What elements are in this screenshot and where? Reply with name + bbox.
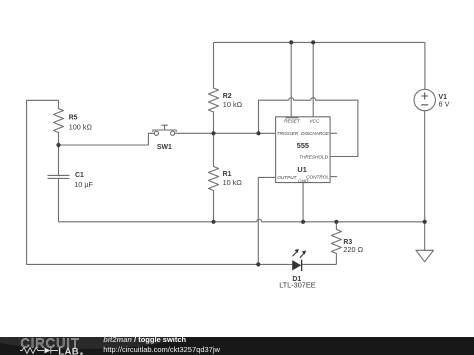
pin stub discharge: [330, 132, 337, 134]
wire V1 bottom: [424, 111, 426, 222]
wire output to LED: [258, 177, 275, 264]
node output-LED: [256, 262, 260, 266]
wire reset feed: [290, 42, 292, 116]
capacitor C1: [48, 145, 70, 222]
ground: [416, 250, 434, 261]
label C1: [74, 172, 93, 189]
svg-text:THRESHOLD: THRESHOLD: [299, 154, 329, 159]
svg-text:R2: R2: [223, 93, 232, 100]
svg-text:LAB: LAB: [58, 347, 79, 355]
node gnd bus: [301, 220, 305, 224]
svg-text:10 kΩ: 10 kΩ: [223, 178, 243, 187]
label R5: [69, 114, 93, 131]
resistor R2: [209, 42, 219, 133]
wire threshold feedback loop with hops: [259, 98, 358, 157]
wire ground stub: [424, 222, 426, 251]
wire LED to R3: [302, 263, 337, 265]
svg-text:U1: U1: [297, 165, 306, 174]
svg-text:6 V: 6 V: [439, 99, 450, 108]
svg-text:R5: R5: [69, 114, 78, 121]
svg-text:GND: GND: [298, 178, 309, 183]
label R3: [343, 239, 363, 254]
voltage source V1: [414, 89, 435, 110]
wire gnd pin: [302, 183, 304, 222]
svg-text:bit2man / toggle switch: bit2man / toggle switch: [103, 335, 186, 344]
wire trigger row: [214, 132, 276, 134]
wire left rail and LED row: [27, 100, 293, 264]
LED D1: [292, 249, 306, 271]
label V1: [439, 94, 450, 108]
logo doodle: [20, 348, 58, 354]
svg-text:VCC: VCC: [309, 118, 320, 123]
svg-text:10 kΩ: 10 kΩ: [223, 100, 243, 109]
svg-text:R1: R1: [223, 171, 232, 178]
svg-text:220 Ω: 220 Ω: [343, 245, 363, 254]
555 pin labels: [277, 118, 330, 183]
svg-text:SW1: SW1: [157, 144, 172, 151]
svg-text:100 kΩ: 100 kΩ: [69, 123, 93, 132]
wire vcc feed: [312, 42, 314, 116]
resistor R5: [54, 100, 64, 145]
node vcc bus: [311, 40, 315, 44]
switch SW1: [153, 125, 176, 135]
wire R5 to SW1: [59, 133, 155, 145]
wire V1 top: [424, 42, 426, 89]
label R2: [223, 93, 243, 109]
op-amp U1 box (555 timer): [276, 117, 331, 183]
node R1 bottom: [211, 220, 215, 224]
label R1: [223, 171, 243, 187]
branding bar: [0, 323, 474, 355]
branding text: [103, 335, 220, 354]
node reset bus: [289, 40, 293, 44]
wire top supply bus: [214, 41, 425, 43]
svg-text:RESET: RESET: [284, 118, 301, 123]
node V1 ground: [423, 220, 427, 224]
label D1: [279, 276, 316, 290]
svg-text:555: 555: [297, 141, 309, 150]
svg-text:OUTPUT: OUTPUT: [277, 175, 297, 180]
pin stub control: [330, 176, 337, 178]
node R5-C1-SW1: [56, 143, 60, 147]
svg-text:http://circuitlab.com/ckt3257q: http://circuitlab.com/ckt3257qd37jw: [103, 345, 220, 354]
svg-text:CONTROL: CONTROL: [306, 175, 329, 180]
node R3 top: [334, 220, 338, 224]
wire SW1 to bus node: [175, 132, 214, 134]
wire bottom bus with hop: [59, 219, 425, 222]
svg-text:DISCHARGE: DISCHARGE: [301, 131, 330, 136]
node feedback-trigger: [256, 131, 260, 135]
svg-text:10 µF: 10 µF: [74, 180, 93, 189]
node trigger: [211, 131, 215, 135]
logo LAB text: [58, 347, 82, 355]
svg-text:C1: C1: [75, 172, 84, 179]
svg-text:LTL-307EE: LTL-307EE: [279, 281, 316, 290]
resistor R1: [209, 133, 219, 222]
resistor R3: [331, 222, 341, 265]
svg-text:TRIGGER: TRIGGER: [277, 131, 299, 136]
